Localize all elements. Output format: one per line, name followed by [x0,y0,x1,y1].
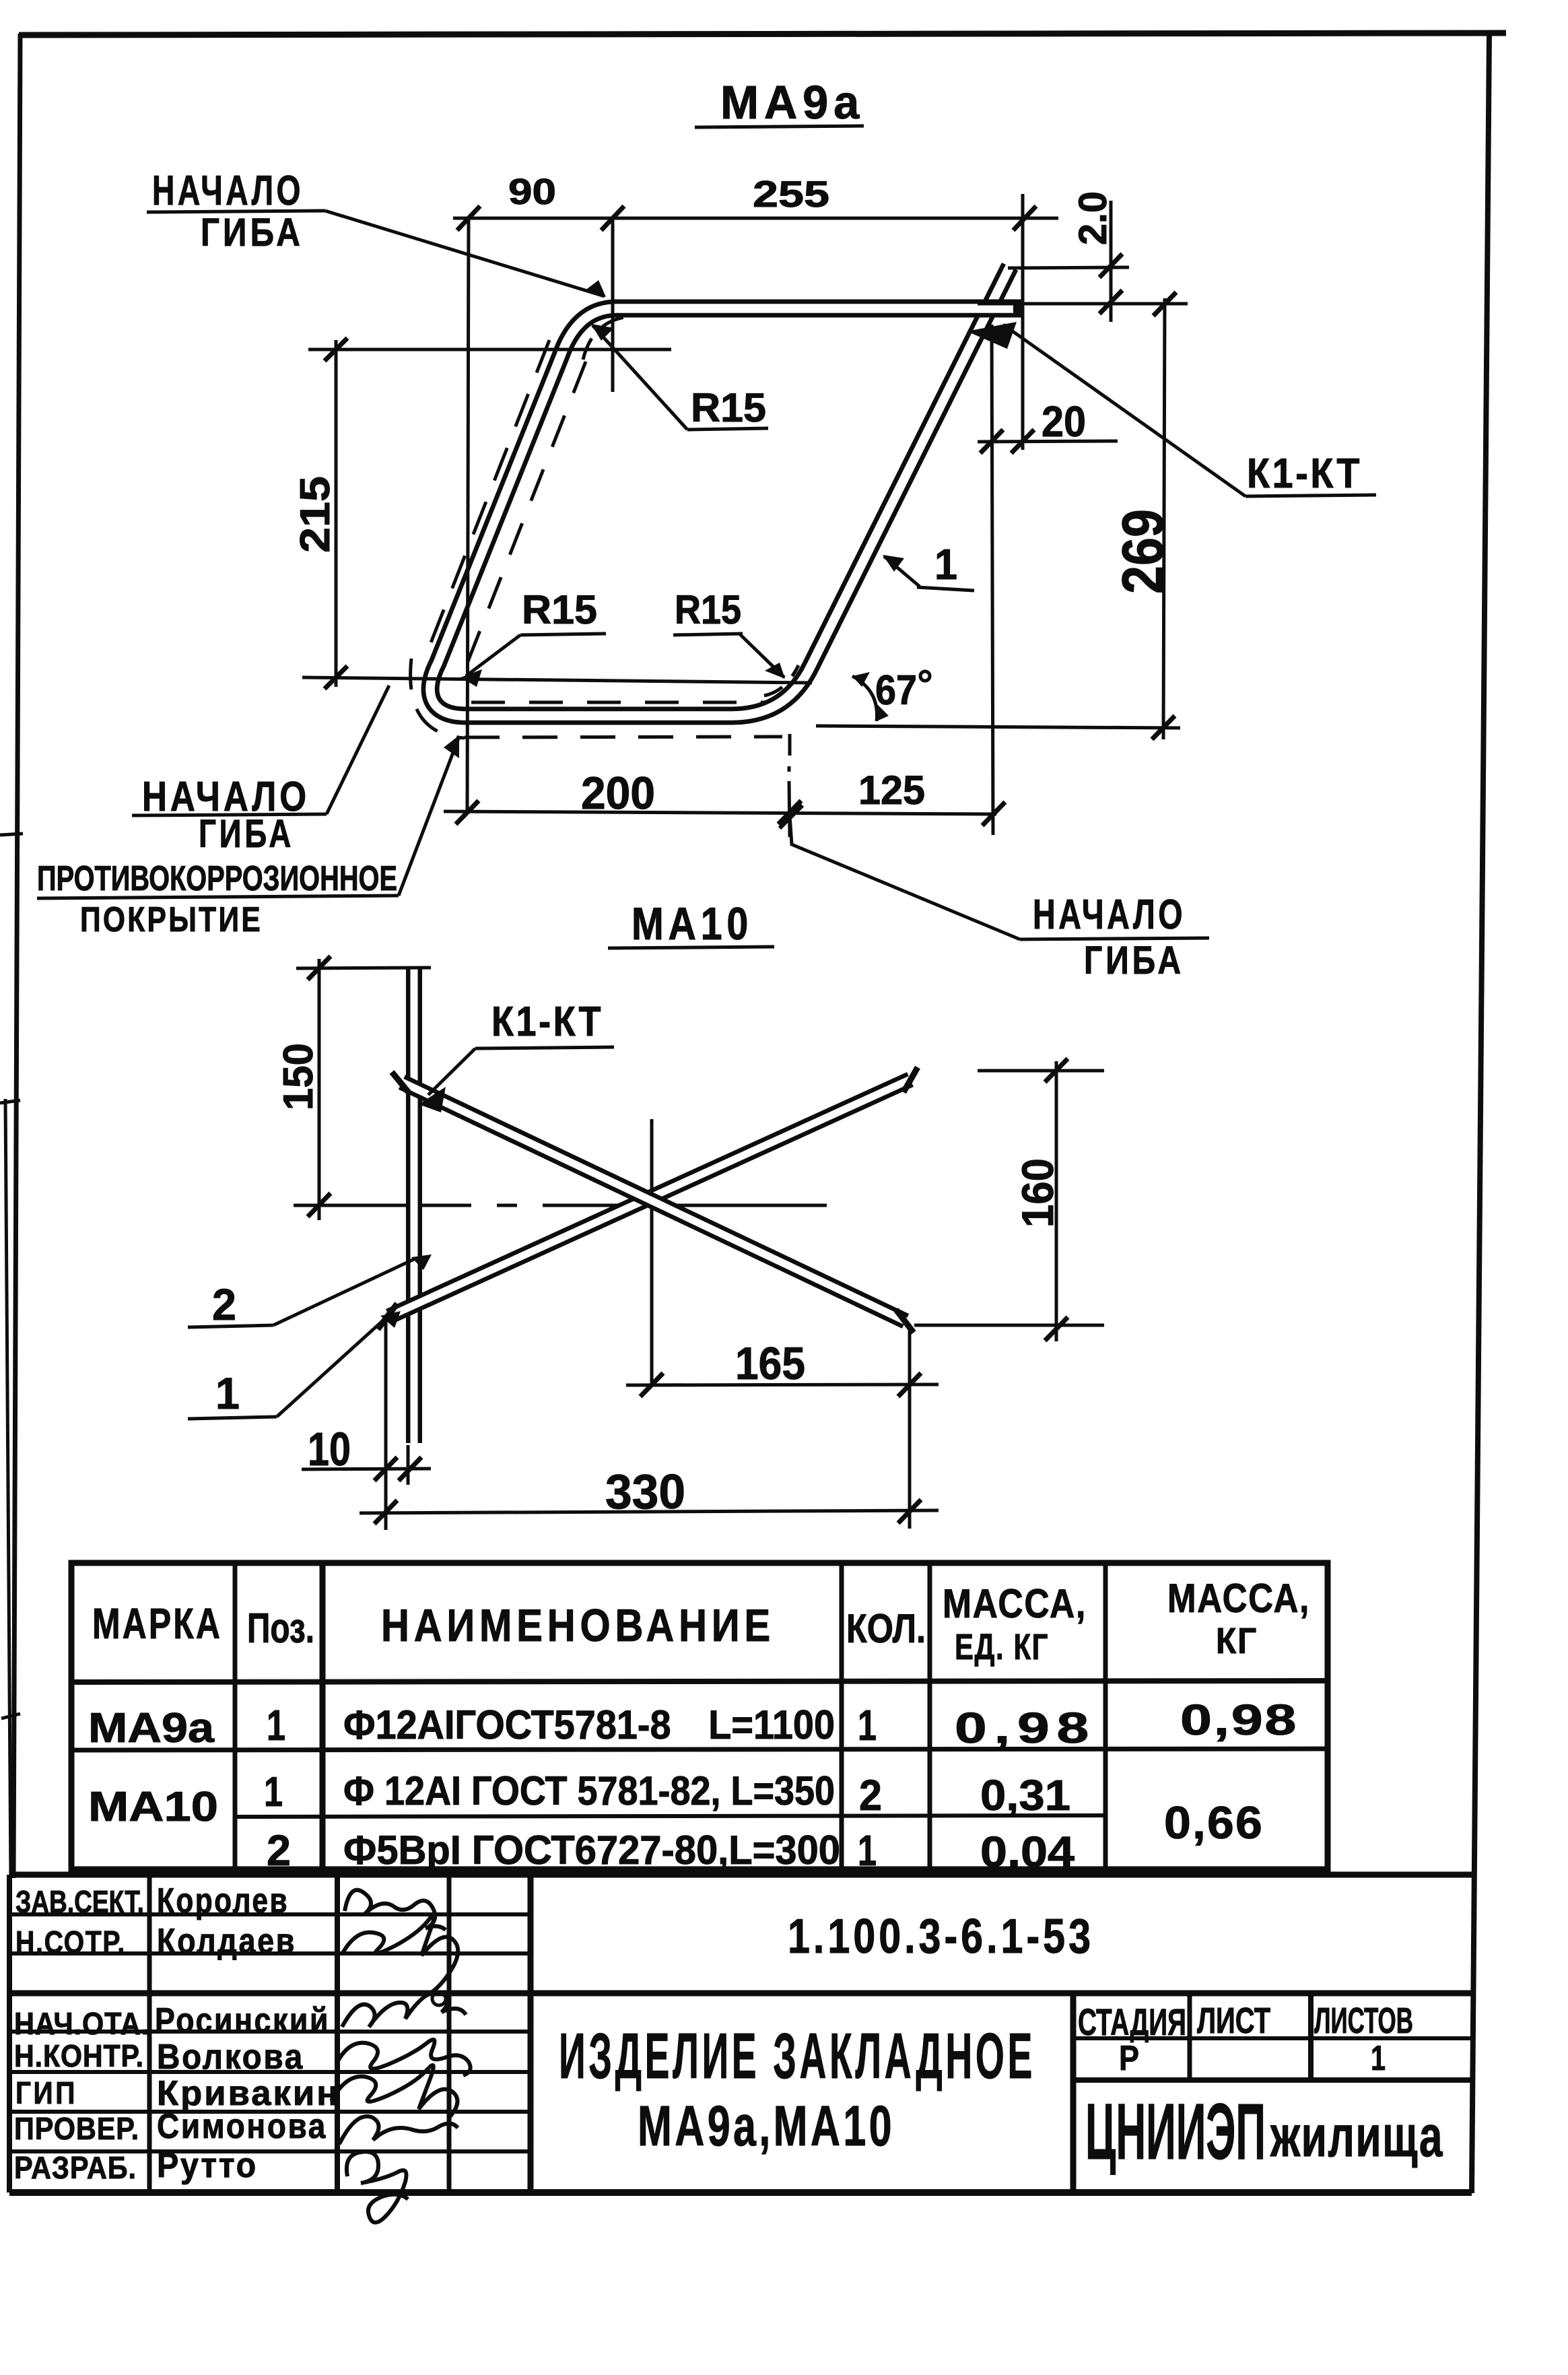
dimension line 200/125 at y=1207 [444,811,996,814]
signature Rutto [347,2151,408,2222]
svg-text:ГИБА: ГИБА [1084,939,1184,982]
tick 215 top [325,338,347,361]
tick 330 right [898,1500,921,1523]
svg-text:ПОКРЫТИЕ: ПОКРЫТИЕ [80,900,263,939]
anticorrosion dashed arc, bottom-left bend outer [411,659,465,738]
extension line vertical x=910 (90/255 dims) [611,218,615,392]
svg-text:ГИБА: ГИБА [199,812,294,856]
tick 150 bottom [308,1193,331,1217]
svg-text:НАЧ.ОТА.: НАЧ.ОТА. [14,2006,149,2041]
dimension line 90/255 at y=324 [453,217,1058,220]
dimension line 215 at x=499 [335,340,338,687]
svg-text:1.100.3-6.1-53: 1.100.3-6.1-53 [788,1910,1094,1964]
svg-text:0,31: 0,31 [980,1771,1070,1819]
svg-text:МАССА,: МАССА, [1167,1576,1310,1621]
tick 255 right [1013,206,1036,230]
svg-text:1: 1 [267,1701,285,1749]
svg-text:1: 1 [264,1769,283,1815]
svg-text:Росинский: Росинский [155,2001,330,2040]
signature Koldaev [342,1915,458,1997]
dimension line 2.0 at x=1650 [1110,201,1113,322]
extension line horizontal y=1008 (215 bottom, through corner) [302,677,812,683]
svg-text:МА10: МА10 [88,1784,218,1830]
tick 10 left [374,1457,397,1481]
svg-text:жилища: жилища [1270,2104,1443,2169]
column line MassaEd/MassaKg [1103,1563,1108,1869]
angle arc 67deg with arrows [852,676,877,721]
svg-text:ЕД. КГ: ЕД. КГ [955,1627,1049,1667]
svg-text:Ф12АІГОСТ5781-8 L=1100: Ф12АІГОСТ5781-8 L=1100 [343,1702,835,1747]
staff column line 2 [335,1875,340,2193]
svg-text:125: 125 [858,768,925,813]
svg-text:269: 269 [1111,509,1175,594]
header row line [71,1681,1328,1682]
svg-text:ГИП: ГИП [15,2075,77,2110]
bar A end cap upper-right [904,1067,918,1092]
svg-text:1: 1 [858,1701,877,1749]
anticorrosion dashed line, bottom bar inner [471,701,774,704]
tick 215 bottom [325,666,347,689]
tick 90 left [457,206,480,230]
svg-text:150: 150 [275,1043,322,1110]
svg-text:Колдаев: Колдаев [157,1922,296,1961]
extension line horizontal y=519 (215 top) [308,348,671,352]
stadia values bottom [1073,2077,1472,2083]
svg-text:КОЛ.: КОЛ. [846,1606,926,1651]
svg-text:Ф5ВрІ ГОСТ6727-80,L=300: Ф5ВрІ ГОСТ6727-80,L=300 [343,1828,840,1873]
anticorrosion dashed line, left slant outer [423,340,549,663]
extension line vertical x=696 (90/200 dims) [467,218,469,811]
column line Naimenovanie/Kol [840,1563,844,1869]
svg-text:0,66: 0,66 [1164,1797,1264,1848]
svg-text:R15: R15 [691,385,766,430]
tick 20 left [980,430,1003,453]
anticorrosion dashed arc, bottom-right bend inner [764,665,798,696]
svg-text:0,98: 0,98 [1180,1696,1298,1744]
signature Krivakin [331,2065,457,2118]
svg-text:Р: Р [1119,2039,1139,2078]
tick 200 left [456,801,479,824]
svg-text:ИЗДЕЛИЕ ЗАКЛАДНОЕ: ИЗДЕЛИЕ ЗАКЛАДНОЕ [559,2020,1035,2092]
svg-text:2: 2 [267,1826,291,1875]
svg-text:0,98: 0,98 [955,1704,1096,1752]
svg-text:Симонова: Симонова [157,2107,327,2146]
stadia box vertical divider [1070,1993,1077,2193]
svg-text:ПРОТИВОКОРРОЗИОННОЕ: ПРОТИВОКОРРОЗИОННОЕ [37,859,397,898]
weld arrow at corner [967,322,1017,349]
staff column line 1 [147,1875,152,2193]
svg-text:165: 165 [735,1338,805,1389]
svg-text:330: 330 [605,1465,685,1519]
centerline horizontal dash-dot [294,1204,827,1207]
svg-text:Н.КОНТР.: Н.КОНТР. [14,2038,144,2073]
tick 10 right [399,1457,421,1481]
table outer box [71,1563,1328,1869]
extension line horizontal y=1080 (269 bottom) [816,726,1180,728]
tick 160 bottom [1045,1317,1068,1341]
extension line horizontal y=451 (2.0 bottom / 269 top) [978,302,1188,306]
dimension line 20 at y=656 [978,441,1118,442]
anticorrosion dashed arc, top-left bend inner [583,316,629,360]
svg-text:1: 1 [934,540,957,589]
stadia header bottom [1073,2036,1472,2040]
svg-text:1: 1 [858,1826,877,1875]
svg-text:ЗАВ.СЕКТ.: ЗАВ.СЕКТ. [15,1884,144,1919]
bar B end cap lower-right [896,1310,914,1333]
svg-text:Поз.: Поз. [247,1605,314,1652]
svg-text:МА10: МА10 [632,898,753,949]
tick 2.0 bottom [1099,290,1122,314]
dimension line 269 at x=1729 [1163,298,1165,739]
svg-text:2: 2 [212,1279,236,1329]
svg-text:ПРОВЕР.: ПРОВЕР. [14,2111,139,2146]
dimension line 165 at y=2057 [626,1384,939,1385]
svg-text:МА9а,МА10: МА9а,МА10 [638,2094,895,2157]
bar A end cap lower-left [378,1304,397,1329]
signature Simonova [339,2116,458,2144]
rebar loop MA9a (pos 1), double-line [430,267,1023,716]
extension line bar bottom x=606 [407,1445,410,1485]
svg-text:67: 67 [875,667,917,714]
signature Volkova [337,2040,471,2075]
svg-text:20: 20 [1042,397,1086,446]
anticorrosion dashed line, left slant inner [463,362,586,673]
staff column line 3 [447,1875,452,2193]
svg-text:10: 10 [308,1423,351,1475]
svg-text:R15: R15 [675,587,741,632]
svg-text:РАЗРАБ.: РАЗРАБ. [14,2150,137,2185]
staff column line 4 / middle box left [528,1875,534,2193]
svg-text:160: 160 [1013,1158,1062,1228]
svg-text:ЛИСТОВ: ЛИСТОВ [1314,2001,1413,2041]
dimension line 150 at x=474 [318,959,321,1220]
top bar end over stub [967,300,1023,318]
staff row lines [9,1912,531,1916]
tick 2.0 top [1099,254,1122,277]
svg-text:200: 200 [581,768,655,819]
tick 330 left [374,1500,397,1524]
svg-text:0,04: 0,04 [980,1828,1075,1876]
tick 160 top [1045,1059,1068,1082]
svg-text:НАИМЕНОВАНИЕ: НАИМЕНОВАНИЕ [381,1600,775,1651]
tick 165 left [640,1373,663,1397]
extension line vertical x=1519 (255/20 dims) [1021,194,1025,450]
svg-text:255: 255 [753,173,829,215]
centerline dash-dot x=1173 (200/125 boundary) [789,734,790,837]
svg-text:ЛИСТ: ЛИСТ [1197,2001,1270,2041]
tick 150 top [308,956,331,980]
svg-text:R15: R15 [522,587,597,632]
dimension line 330 at y=2245 [360,1510,939,1513]
svg-text:Н.СОТР.: Н.СОТР. [15,1925,126,1960]
left border tick y=2548 [1,1714,20,1718]
svg-text:Королев: Королев [157,1881,289,1920]
column line Kol/MassaEd [928,1563,932,1869]
plate bar pos 2 (vertical, d5) double-line [406,968,422,1443]
svg-text:К1-КТ: К1-КТ [491,999,603,1045]
centerline vertical [650,1119,654,1387]
dimension line 10 at y=2182 [302,1469,431,1469]
svg-text:215: 215 [292,476,339,553]
svg-text:СТАДИЯ: СТАДИЯ [1078,2001,1186,2043]
svg-text:МА9а: МА9а [720,76,864,129]
title underline [695,126,864,127]
column line Marka/Poz [233,1563,238,1869]
svg-text:К1-КТ: К1-КТ [1247,450,1362,497]
extension line y=1590 right [978,1069,1104,1073]
svg-text:МАРКА: МАРКА [92,1599,222,1648]
svg-text:Рутто: Рутто [157,2146,258,2185]
svg-text:НАЧАЛО: НАЧАЛО [152,168,304,214]
svg-text:НАЧАЛО: НАЧАЛО [1033,892,1186,938]
tick 269 top [1153,292,1176,316]
bar B end cap upper-left [392,1072,411,1095]
svg-text:КГ: КГ [1216,1621,1258,1661]
left border tick y=1240 [0,834,23,835]
svg-text:Волкова: Волкова [157,2038,304,2077]
tick 90/255 [601,206,624,230]
extension line x=573 bottom [384,1321,388,1530]
anticorrosion dashed line, bottom bar outer [465,737,782,737]
tick 200/125 [778,801,801,824]
extension line vertical x=1474 (20/125 dims) [992,325,993,835]
svg-text:МА9а: МА9а [88,1705,215,1751]
row line between MA10 pos1/pos2 [235,1815,1105,1817]
svg-text:ГИБА: ГИБА [201,211,304,255]
svg-text:Ф 12АІ ГОСТ 5781-82, L=350: Ф 12АІ ГОСТ 5781-82, L=350 [343,1768,835,1813]
dimension line 160 at x=1569 [1055,1061,1058,1341]
tick 20 right [1011,430,1034,453]
svg-text:1: 1 [215,1368,240,1418]
svg-text:МАССА,: МАССА, [943,1581,1087,1626]
svg-text:90: 90 [508,172,556,212]
extension line x=1351 bottom [908,1327,912,1529]
signature Korolev [345,1890,446,1930]
tick 125 right [982,802,1005,826]
svg-text:2.0: 2.0 [1071,191,1115,245]
extension line y=1968 right [914,1324,1104,1327]
bar pos 1 A (lower-left to upper-right) double-line [389,1079,910,1316]
tick 165 right [898,1373,921,1397]
bar pos 1 B (upper-left to lower-right) double-line [402,1082,906,1321]
tick 269 bottom [1152,716,1175,739]
extension line top y=1438 [296,968,431,968]
svg-text:2: 2 [859,1771,882,1819]
extension line horizontal y=398 (2.0 top) [1008,267,1129,268]
signature Rosinskiy [342,1992,466,2027]
svg-text:ЦНИИЭП: ЦНИИЭП [1085,2087,1266,2176]
staff table outer [7,1875,12,2193]
stadia/list columns [1188,1995,1192,2080]
row line after MA9a [71,1749,1328,1750]
svg-text:1: 1 [1371,2039,1386,2078]
column line Poz/Naimenovanie [320,1563,326,1869]
